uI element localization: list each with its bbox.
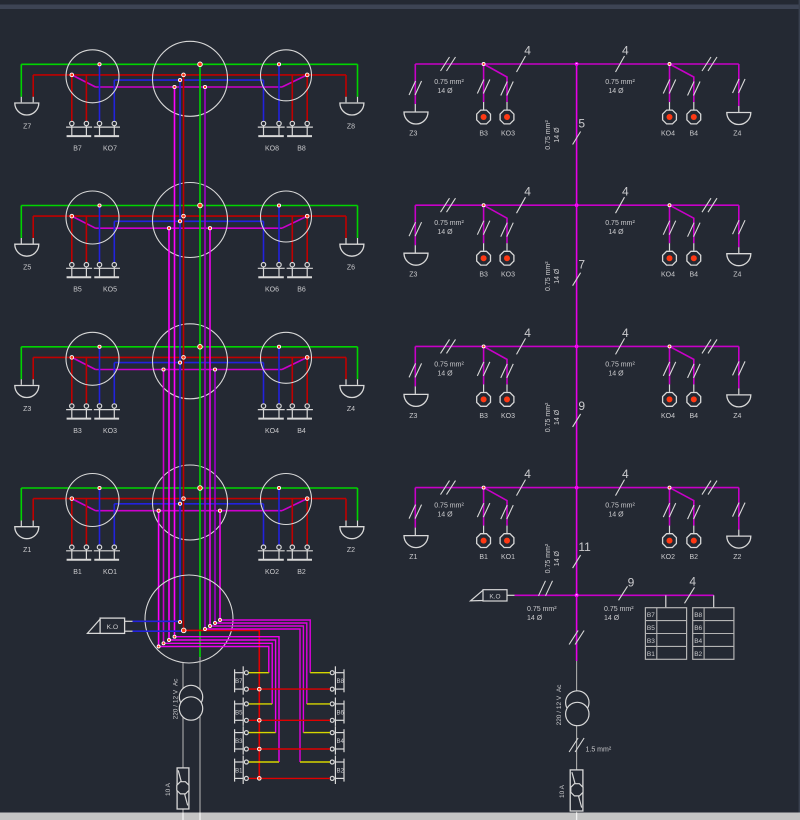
slash marks B4 drop row 3	[688, 364, 695, 378]
label 0.75 mm2 right row 4	[605, 503, 635, 519]
slash mark 9 table feed	[619, 586, 628, 600]
svg-text:7: 7	[578, 258, 585, 272]
slash marks KO3 drop row 2	[501, 223, 508, 237]
svg-text:KO5: KO5	[103, 287, 117, 294]
svg-text:4: 4	[524, 467, 531, 481]
wire red drops to switch B8	[291, 75, 293, 121]
wire blue riser bundle	[179, 80, 181, 622]
svg-text:0.75 mm²: 0.75 mm²	[605, 220, 635, 227]
wire red terminal row B5-B6	[249, 719, 330, 721]
wire green drop to lamp Z3	[20, 347, 22, 380]
wire drop to KO3 row 3	[484, 346, 507, 384]
junction box circle right row 2	[261, 191, 312, 242]
switch button B2 row 4	[687, 534, 701, 548]
svg-text:Z3: Z3	[409, 131, 417, 138]
node dots row 2	[70, 203, 309, 230]
wire red bus row 1	[33, 74, 346, 76]
wire violet fan upper 1	[205, 629, 300, 762]
svg-text:B3: B3	[73, 428, 82, 435]
lamp Z3	[15, 386, 39, 398]
wire green bus row 2	[21, 205, 357, 207]
slash marks main line left row 1	[441, 57, 450, 71]
svg-text:B1: B1	[479, 554, 488, 561]
wire magenta diagonal right row 3	[282, 357, 307, 369]
svg-text:0.75 mm²: 0.75 mm²	[545, 120, 552, 150]
svg-text:KO4: KO4	[661, 131, 675, 138]
svg-text:Z4: Z4	[733, 131, 741, 138]
node dots main line row 1	[482, 63, 671, 66]
svg-text:B3: B3	[479, 131, 488, 138]
slash mark circuit count right row 1	[616, 56, 625, 72]
svg-text:KO6: KO6	[265, 287, 279, 294]
label 0.75 mm2 right row 1	[605, 79, 635, 95]
svg-text:B2: B2	[694, 651, 702, 658]
slash marks main line left row 2	[441, 198, 450, 212]
slash marks lamp Z2 drop row 4	[733, 503, 740, 517]
slash marks B3 drop row 3	[477, 362, 484, 376]
wire magenta riser row 4 left	[158, 511, 160, 647]
wire magenta diagonal right row 4	[282, 499, 307, 511]
wire white stub K.O right	[507, 594, 515, 596]
svg-text:0.75 mm²: 0.75 mm²	[605, 361, 635, 368]
wire blue bus row 4	[114, 503, 263, 505]
wire magenta riser row 1 left	[174, 87, 176, 637]
wire red drop to lamp Z1	[32, 499, 34, 521]
wire blue drops to switch KO6	[263, 221, 265, 262]
switch B3	[70, 404, 74, 408]
svg-text:KO8: KO8	[265, 145, 279, 152]
junction box circle center row 4	[153, 465, 228, 540]
switch B2	[290, 545, 294, 549]
wire red drop to lamp Z3	[32, 357, 34, 379]
label 0.75 mm2 riser section 2	[545, 261, 561, 291]
terminal block B4	[330, 726, 344, 754]
slash marks B3 drop row 1	[477, 80, 484, 94]
svg-text:B4: B4	[297, 428, 306, 435]
svg-text:14 Ø: 14 Ø	[554, 127, 561, 143]
svg-text:9: 9	[578, 399, 585, 413]
switch B6	[290, 263, 294, 267]
wire green riser bundle	[199, 64, 201, 657]
junction box circle left row 2	[66, 191, 119, 244]
terminal block B5	[235, 698, 249, 726]
svg-text:9: 9	[628, 576, 635, 590]
svg-text:Z2: Z2	[347, 547, 355, 554]
svg-text:4: 4	[524, 185, 531, 199]
svg-text:Z4: Z4	[347, 406, 355, 413]
label 0.75 mm2 table feed	[604, 606, 634, 622]
wire feeder crossing bar left	[182, 813, 184, 820]
svg-text:14 Ø: 14 Ø	[437, 370, 453, 377]
svg-text:B3: B3	[479, 272, 488, 279]
svg-text:KO4: KO4	[265, 428, 279, 435]
wire drop to lamp Z3 right diagram row 2	[414, 205, 416, 245]
svg-text:B3: B3	[479, 413, 488, 420]
wire feeder crossing bar mid	[199, 813, 201, 820]
slash marks KO4 drop row 3	[663, 362, 670, 376]
wire violet riser row 3 right	[214, 370, 216, 624]
wire magenta fan lower 1	[175, 637, 280, 762]
lamp Z8	[340, 103, 364, 115]
wire green drop to lamp Z4	[357, 347, 359, 380]
node dot terminal row B1	[258, 777, 262, 781]
junction box circle center row 3	[153, 324, 228, 399]
label 0.75 mm2 riser section 3	[545, 402, 561, 432]
switch button KO3 row 3	[500, 393, 514, 407]
lamp Z4 right row 1	[727, 113, 751, 125]
junction box circle left row 4	[66, 474, 119, 527]
switch KO1	[97, 545, 101, 549]
bottom scrollbar bar	[0, 813, 800, 820]
wire red drops to switch B6	[291, 216, 293, 262]
terminal block B7	[235, 666, 249, 694]
wire red drop to lamp Z2	[345, 499, 347, 521]
K.O switch flag symbol	[87, 618, 124, 633]
svg-text:B4: B4	[694, 638, 702, 645]
svg-text:K.O: K.O	[489, 594, 500, 601]
svg-text:Z1: Z1	[409, 554, 417, 561]
slash marks KO1 drop row 4	[501, 505, 508, 519]
svg-text:14 Ø: 14 Ø	[554, 268, 561, 284]
label 0.75 mm2 right row 3	[605, 361, 635, 377]
svg-text:KO2: KO2	[265, 569, 279, 576]
wire magenta bus row 4	[96, 510, 283, 512]
junction box circle right row 3	[261, 332, 312, 383]
slash marks lamp drop row 3	[409, 363, 416, 377]
switch B7	[70, 121, 74, 125]
wire white drop to table left	[665, 595, 667, 607]
wire blue bus row 3	[114, 362, 263, 364]
svg-text:B1: B1	[73, 569, 82, 576]
wire gray feeder left	[182, 663, 184, 768]
switch button B4 row 3	[687, 393, 701, 407]
wire green drop to lamp Z6	[357, 206, 359, 239]
svg-text:B6: B6	[694, 625, 702, 632]
junction box circle right row 4	[261, 474, 312, 525]
svg-text:B4: B4	[690, 131, 699, 138]
junction box circle left row 3	[66, 332, 119, 385]
switch KO5	[97, 263, 101, 267]
wire green bus row 1	[21, 63, 357, 65]
svg-text:KO3: KO3	[501, 413, 515, 420]
lamp Z4 right row 3	[727, 395, 751, 407]
slash marks main line right row 1	[702, 57, 711, 71]
switch button B3 row 3	[477, 393, 491, 407]
label 0.75 mm2 left row 1	[434, 79, 464, 95]
wire red drop to lamp Z6	[345, 216, 347, 238]
svg-text:B2: B2	[337, 768, 345, 774]
slash marks B1 drop row 4	[477, 503, 484, 517]
svg-text:14 Ø: 14 Ø	[554, 550, 561, 566]
svg-text:Z1: Z1	[23, 547, 31, 554]
wire yellow stub B1	[249, 761, 279, 763]
slash mark circuit count right row 2	[616, 197, 625, 213]
svg-text:K.O: K.O	[106, 624, 118, 631]
wire violet fan upper 4	[220, 620, 310, 673]
svg-text:B5: B5	[235, 710, 243, 716]
slash marks lamp drop row 1	[409, 81, 416, 95]
wire magenta diagonal right row 2	[282, 216, 307, 228]
terminal block B3	[235, 726, 249, 754]
node dots row 4	[70, 486, 309, 513]
lamp Z6	[340, 244, 364, 256]
svg-text:Z8: Z8	[347, 123, 355, 130]
wire magenta riser to transformer right	[576, 595, 578, 661]
svg-text:Z3: Z3	[409, 413, 417, 420]
label 0.75 mm2 right row 2	[605, 220, 635, 236]
wire magenta bus row 2	[96, 227, 283, 229]
switch B4	[290, 404, 294, 408]
junction box circle left row 1	[66, 50, 119, 103]
wire red drops to switch B2	[291, 499, 293, 545]
wire red drop to lamp Z5	[32, 216, 34, 238]
junction box circle bottom	[145, 575, 233, 663]
svg-text:Z4: Z4	[733, 413, 741, 420]
wire red bus row 3	[33, 356, 346, 358]
terminal block B1	[235, 756, 249, 784]
wire magenta diagonal left row 1	[72, 75, 96, 87]
svg-text:Z4: Z4	[733, 272, 741, 279]
slash marks main line left row 4	[441, 481, 450, 495]
svg-text:14 Ø: 14 Ø	[437, 229, 453, 236]
wire gray feeder right	[199, 657, 201, 813]
svg-text:4: 4	[689, 574, 696, 588]
lamp Z1 right diagram row 4	[404, 536, 428, 548]
slash mark circuit count right row 4	[616, 480, 625, 496]
switch button B3 row 1	[477, 110, 491, 124]
wire drop to B3 row 1	[483, 64, 485, 102]
slash marks B2 drop row 4	[688, 505, 695, 519]
svg-text:B1: B1	[647, 651, 655, 658]
wire blue drops to switch KO7	[99, 64, 101, 121]
wire magenta diagonal left row 2	[72, 216, 96, 228]
wire red riser bundle	[183, 75, 185, 631]
lamp Z4 right row 2	[727, 254, 751, 266]
switch button B3 row 2	[477, 251, 491, 265]
wire magenta fan lower 4	[159, 647, 269, 673]
wire white riser transformer right	[576, 661, 578, 770]
wire drop to B1 row 4	[483, 488, 485, 526]
wire magenta diagonal left row 4	[72, 499, 96, 511]
right edge scrollbar sliver	[799, 0, 800, 820]
svg-text:0.75 mm²: 0.75 mm²	[434, 220, 464, 227]
switch KO4	[261, 404, 265, 408]
wire violet fan upper 3	[215, 623, 307, 704]
slash marks lamp Z4 drop row 2	[733, 220, 740, 234]
node dots main line row 2	[482, 204, 671, 207]
wire blue drops to switch KO8	[263, 80, 265, 121]
slash mark circuit count right row 3	[616, 338, 625, 354]
wire magenta fan lower 2	[169, 640, 276, 733]
slash marks B4 drop row 2	[688, 223, 695, 237]
switch button B4 row 2	[687, 251, 701, 265]
wire violet riser row 1 right	[204, 87, 206, 629]
wire drop to KO3 row 2	[484, 205, 507, 243]
lamp Z7	[15, 103, 39, 115]
svg-text:KO3: KO3	[103, 428, 117, 435]
node dot terminal row B7	[258, 687, 262, 691]
svg-text:4: 4	[622, 185, 629, 199]
wire red drops to switch B7	[71, 75, 73, 121]
wire drop to B4 row 1	[670, 64, 694, 102]
wire drop to lamp Z4 right diagram row 3	[738, 346, 740, 388]
svg-text:KO2: KO2	[661, 554, 675, 561]
node dots bottom junction	[157, 619, 221, 649]
wire red drops to switch B5	[71, 216, 73, 262]
switch KO8	[261, 121, 265, 125]
wire magenta riser row 3 left	[163, 370, 165, 644]
svg-text:B8: B8	[337, 679, 345, 685]
wire yellow stub B8	[310, 672, 330, 674]
svg-text:Z3: Z3	[409, 272, 417, 279]
slash mark riser section 4	[573, 555, 581, 568]
svg-text:Z6: Z6	[347, 265, 355, 272]
label 0.75 mm2 left row 4	[434, 503, 464, 519]
slash marks lamp drop row 2	[409, 222, 416, 236]
wire blue drops to switch KO2	[263, 504, 265, 545]
slash marks KO4 drop row 1	[663, 80, 670, 94]
slash mark circuit count left row 4	[517, 480, 526, 496]
wire red terminal row B3-B4	[249, 748, 330, 750]
switch B5	[70, 263, 74, 267]
svg-text:B3: B3	[235, 739, 243, 745]
junction box circle center row 2	[153, 183, 228, 258]
svg-text:10 A: 10 A	[165, 782, 172, 796]
wire magenta main line right row 3	[415, 345, 739, 347]
svg-text:4: 4	[622, 326, 629, 340]
wire blue bus row 1	[114, 79, 263, 81]
svg-text:B4: B4	[690, 413, 699, 420]
slash marks main line right row 2	[702, 198, 711, 212]
svg-text:11: 11	[578, 540, 591, 554]
svg-text:B4: B4	[690, 272, 699, 279]
svg-text:14 Ø: 14 Ø	[437, 88, 453, 95]
svg-text:220 / 12 V Ac: 220 / 12 V Ac	[556, 684, 563, 726]
wire blue drops to switch KO3	[99, 347, 101, 404]
wire drop to lamp Z2 right diagram row 4	[738, 488, 740, 530]
node dots main line row 4	[482, 486, 671, 489]
svg-text:B2: B2	[690, 554, 699, 561]
wire yellow stub B4	[303, 732, 330, 734]
svg-text:KO3: KO3	[501, 272, 515, 279]
svg-text:0.75 mm²: 0.75 mm²	[434, 79, 464, 86]
wire blue drops to switch KO1	[99, 488, 101, 545]
slash marks transformer feed right	[569, 631, 578, 645]
wire magenta riser bus right diagram	[576, 64, 578, 595]
wire blue K.O to bundle	[125, 620, 133, 622]
switch KO2	[261, 545, 265, 549]
node dots main line row 3	[482, 345, 671, 348]
svg-text:14 Ø: 14 Ø	[604, 615, 620, 622]
switch KO3	[97, 404, 101, 408]
lamp Z3 right diagram row 2	[404, 253, 428, 265]
switch button KO3 row 1	[500, 110, 514, 124]
wire magenta K.O to node	[515, 594, 577, 596]
svg-text:B7: B7	[647, 612, 655, 619]
wire red bus row 2	[33, 215, 346, 217]
wire violet riser row 4 right	[219, 511, 221, 620]
wire red drops to switch B3	[71, 357, 73, 403]
wire violet fan upper 2	[210, 626, 303, 733]
slash marks 1.5mm feed	[569, 738, 578, 752]
switch button B4 row 1	[687, 110, 701, 124]
svg-text:5: 5	[578, 117, 585, 131]
slash marks lamp Z4 drop row 1	[733, 79, 740, 93]
wire drop to KO1 row 4	[484, 488, 507, 526]
wire feeder crossing bar right	[576, 813, 578, 820]
wire green drop to lamp Z7	[20, 64, 22, 97]
svg-text:Z2: Z2	[733, 554, 741, 561]
lamp Z4	[340, 386, 364, 398]
wire magenta main line right row 1	[415, 63, 739, 65]
svg-text:220 / 12 V Ac: 220 / 12 V Ac	[173, 678, 180, 720]
svg-text:14 Ø: 14 Ø	[608, 512, 624, 519]
wire magenta main line right row 2	[415, 204, 739, 206]
slash marks main line left row 3	[441, 339, 450, 353]
fuse 10 A right	[570, 770, 583, 811]
svg-text:4: 4	[524, 44, 531, 58]
wire drop to KO3 row 1	[484, 64, 507, 102]
wire green drop to lamp Z1	[20, 488, 22, 521]
svg-text:KO7: KO7	[103, 145, 117, 152]
svg-text:0.75 mm²: 0.75 mm²	[605, 79, 635, 86]
wire drop to B3 row 3	[483, 346, 485, 384]
wire blue drops to switch KO4	[263, 363, 265, 404]
terminal block B2	[330, 756, 344, 784]
slash marks B4 drop row 1	[688, 82, 695, 96]
switch button KO4 row 3	[663, 393, 677, 407]
wire red center node to terminal bus	[184, 630, 260, 778]
wire magenta diagonal left row 3	[72, 357, 96, 369]
wire drop to B3 row 2	[483, 205, 485, 243]
svg-text:Z3: Z3	[23, 406, 31, 413]
lamp Z5	[15, 244, 39, 256]
label 0.75 mm2 riser section 1	[545, 120, 561, 150]
K.O switch flag symbol right	[471, 590, 508, 601]
wire magenta main line right row 4	[415, 487, 739, 489]
svg-text:B7: B7	[235, 679, 243, 685]
terminal table right	[693, 608, 734, 660]
wire green bus row 4	[21, 487, 357, 489]
label 0.75 mm2 K.O feed	[527, 606, 557, 622]
svg-text:KO4: KO4	[661, 272, 675, 279]
wire blue drops to switch KO5	[99, 206, 101, 263]
svg-text:B8: B8	[297, 145, 306, 152]
svg-text:KO1: KO1	[103, 569, 117, 576]
wire magenta diagonal right row 1	[282, 75, 307, 87]
svg-text:14 Ø: 14 Ø	[437, 512, 453, 519]
lamp Z2	[340, 527, 364, 539]
switch button KO3 row 2	[500, 251, 514, 265]
svg-text:14 Ø: 14 Ø	[608, 88, 624, 95]
svg-text:14 Ø: 14 Ø	[608, 370, 624, 377]
wire green drop to lamp Z8	[357, 64, 359, 97]
slash marks B3 drop row 2	[477, 221, 484, 235]
junction box circle right row 1	[261, 50, 312, 101]
wire green bus row 3	[21, 346, 357, 348]
slash marks lamp drop row 4	[409, 505, 416, 519]
switch button KO4 row 1	[663, 110, 677, 124]
terminal block B6	[330, 698, 344, 726]
label 0.75 mm2 riser section 4	[545, 543, 561, 573]
svg-text:Z5: Z5	[23, 265, 31, 272]
slash mark riser section 3	[573, 414, 581, 427]
switch B1	[70, 545, 74, 549]
terminal table left	[645, 608, 686, 660]
wire drop to KO4 row 1	[669, 64, 671, 102]
svg-text:0.75 mm²: 0.75 mm²	[527, 606, 557, 613]
wire green drop to lamp Z2	[357, 488, 359, 521]
